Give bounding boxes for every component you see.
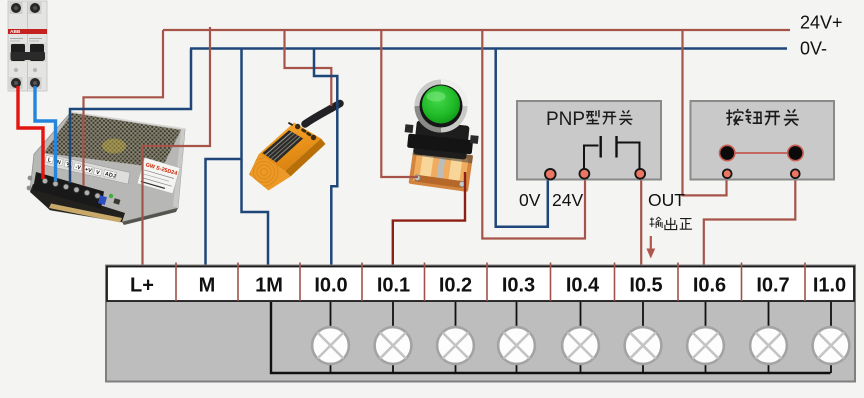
wire brown: PSU +V terminal up to 24V+ bus	[84, 30, 164, 186]
svg-text:0V-: 0V-	[800, 39, 827, 59]
sensor front (sensing) face	[249, 155, 291, 191]
wire navy: PSU -V terminal up to 0V- bus	[70, 49, 191, 184]
svg-text:L+: L+	[130, 275, 154, 297]
wire brown: pushbutton-box right terminal down to I0.6 terminal	[704, 177, 796, 265]
contact symbol inside PNP box	[584, 143, 640, 172]
svg-text:24V+: 24V+	[800, 13, 843, 33]
sensor top face	[259, 123, 322, 172]
svg-text:I0.7: I0.7	[756, 275, 789, 297]
lamp I0.4 (input indicator)	[562, 302, 599, 373]
PNP switch box U1	[517, 101, 661, 180]
svg-text:I0.6: I0.6	[693, 275, 726, 297]
svg-text:1M: 1M	[255, 275, 283, 297]
wire navy: 0V- bus to PNP switch 0V terminal	[496, 49, 548, 227]
svg-text:24V: 24V	[552, 190, 583, 210]
sensor cable	[305, 104, 340, 125]
wire dark red: push button right contact to I0.1 terminal	[393, 172, 465, 265]
wire brown: 24V+ bus to sensor cable end	[285, 30, 332, 106]
PSU terminal block with screws	[33, 172, 104, 209]
power supply PSU (metal case, perspective)	[27, 112, 185, 225]
wire blue: breaker right pole to PSU N terminal	[35, 86, 56, 181]
wire brown: 24V+ bus down to push button left contact	[381, 30, 418, 177]
svg-text:I0.2: I0.2	[439, 275, 472, 297]
terminal 0V of PNP box	[545, 169, 556, 180]
lamp I1.0 (input indicator)	[813, 302, 850, 373]
sensor right side	[285, 139, 326, 177]
wire brown: 24V+ bus to pushbutton-box left terminal	[683, 30, 727, 195]
label 输出正 (output positive)	[649, 217, 692, 230]
wire brown: 24V+ bus to PNP switch 24V terminal	[482, 30, 585, 239]
PLC input module body	[106, 266, 855, 382]
lamp I0.6 (input indicator)	[687, 302, 724, 373]
button contacts (two black dots joined)	[727, 152, 795, 154]
PSU terminal label strip: L N G -V +V V ADJ	[42, 153, 130, 184]
push button (green)	[402, 80, 479, 192]
lamp I0.0 (input indicator)	[312, 302, 349, 373]
svg-text:ABB: ABB	[10, 29, 21, 35]
lamp I0.3 (input indicator)	[498, 302, 535, 373]
svg-text:M: M	[199, 275, 216, 297]
sensor label	[263, 130, 304, 162]
svg-text:I0.3: I0.3	[502, 275, 535, 297]
1M internal common line	[271, 302, 831, 373]
PLC terminal row (white cells)	[107, 267, 854, 302]
wire 0V- bus (navy horizontal)	[190, 47, 787, 50]
terminal cell separators	[176, 263, 805, 302]
pushbutton switch box U2	[691, 101, 835, 180]
svg-text:0V: 0V	[519, 190, 541, 210]
lamp I0.7 (input indicator)	[750, 302, 787, 373]
wire navy: 0V- bus down, branch to M terminal	[206, 49, 269, 266]
circuit breaker CB1 (2-pole ABB)	[8, 1, 47, 91]
svg-text:I1.0: I1.0	[813, 275, 846, 297]
svg-text:OUT: OUT	[648, 190, 685, 210]
terminal OUT of PNP box	[635, 169, 645, 179]
svg-text:PNP: PNP	[546, 109, 585, 130]
wire 24V+ bus (dark brown horizontal)	[163, 29, 790, 31]
proximity sensor (orange, rotated prism)	[249, 104, 340, 191]
svg-text:I0.4: I0.4	[566, 275, 600, 297]
svg-text:I0.5: I0.5	[629, 275, 662, 297]
lamp I0.1 (input indicator)	[375, 302, 412, 373]
arrow down (output direction)	[650, 236, 652, 249]
PSU brand label	[137, 158, 180, 194]
wire navy: 0V- bus past sensor cable down to I0.0 terminal	[314, 49, 337, 266]
lamp I0.2 (input indicator)	[437, 302, 474, 373]
terminal 24V of PNP box	[580, 169, 590, 179]
wire red: breaker left pole to PSU L terminal	[18, 86, 43, 179]
terminal left of button box	[723, 169, 732, 178]
lamp I0.5 (input indicator)	[625, 302, 662, 373]
terminal right of button box	[791, 169, 800, 178]
terminal labels	[130, 275, 846, 297]
svg-text:I0.0: I0.0	[314, 275, 347, 297]
sensor mounting holes	[295, 124, 300, 129]
wire brown: 24V+ bus down to PLC L+ terminal	[143, 27, 211, 265]
wire brown: PNP OUT terminal down to I0.5 terminal	[640, 177, 642, 265]
svg-text:I0.1: I0.1	[377, 275, 410, 297]
